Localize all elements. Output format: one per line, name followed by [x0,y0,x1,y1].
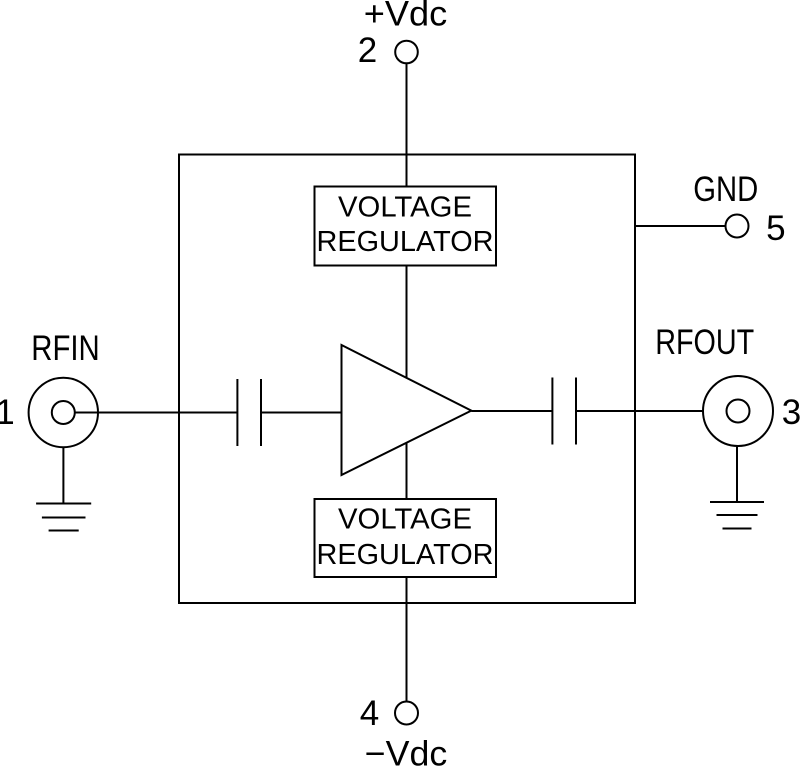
RFIN coax connector inner circle [52,401,75,424]
package outline box [179,155,635,604]
RFIN coax connector outer circle [29,378,98,447]
svg-text:2: 2 [358,31,377,70]
pin 5 terminal circle [726,215,749,238]
wire regulator U1 to amplifier [406,266,408,379]
svg-text:REGULATOR: REGULATOR [317,226,494,258]
capacitor C2 right plate [575,378,577,445]
svg-text:1: 1 [0,393,15,432]
pin 2 terminal circle [395,41,418,64]
svg-text:3: 3 [782,393,800,432]
voltage regulator U2 box [315,499,497,577]
RFOUT coax connector outer circle [703,376,773,446]
wire pin 2 to regulator U1 [406,63,408,186]
voltage regulator U1 box [315,187,497,266]
amplifier triangle [342,345,472,475]
capacitor C1 right plate [260,379,262,446]
svg-text:−Vdc: −Vdc [365,735,448,769]
wire RFIN connector to ground [62,447,64,503]
svg-text:REGULATOR: REGULATOR [317,539,494,571]
wire amplifier output to C2 [471,410,552,412]
pin 4 terminal circle [395,702,418,725]
wire C2 to RFOUT [576,410,703,412]
wire RFIN to C1 [75,412,238,414]
capacitor C2 left plate [551,378,553,445]
capacitor C1 left plate [236,379,238,446]
svg-text:RFIN: RFIN [31,329,100,368]
wire package to pin 5 [635,225,726,227]
ground symbol at RFIN [36,504,91,531]
svg-text:VOLTAGE: VOLTAGE [338,192,472,224]
wire C1 to amplifier input [261,412,342,414]
svg-text:RFOUT: RFOUT [655,323,754,362]
svg-text:GND: GND [693,170,758,209]
wire amplifier to regulator U2 [406,443,408,499]
wire regulator U2 to pin 4 [406,577,408,702]
RFOUT coax connector inner circle [727,400,750,423]
ground symbol at RFOUT [710,502,764,529]
svg-text:+Vdc: +Vdc [364,0,448,34]
svg-text:VOLTAGE: VOLTAGE [338,504,472,536]
svg-text:5: 5 [766,209,785,248]
wire RFOUT connector to ground [736,446,738,502]
svg-text:4: 4 [360,694,379,733]
